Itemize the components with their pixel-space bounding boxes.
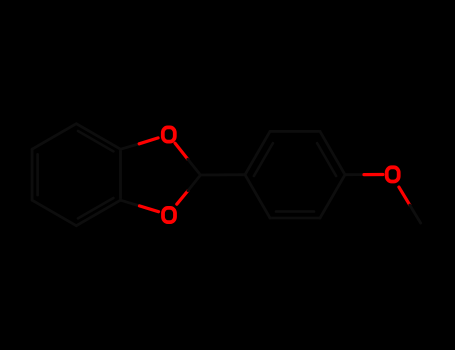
bond C2-ipso xyxy=(201,173,246,176)
phenyl ring edge ipso-A xyxy=(245,131,270,174)
phenyl ring edge C-D xyxy=(270,217,320,220)
benzo ring edge Vlb-Vlt xyxy=(31,149,34,200)
phenyl double bond inner line C-D xyxy=(276,210,314,213)
benzo double bond inner line left xyxy=(36,154,39,195)
benzo ring edge Cb-Vb xyxy=(76,200,120,226)
bond O2-C2 dark half xyxy=(188,175,201,191)
bond O2-C2 red half xyxy=(177,191,188,205)
atom O2 xyxy=(163,208,175,222)
bond Ct-O1 dark half xyxy=(121,144,140,149)
bond para-O3 red half xyxy=(364,173,383,176)
benzo ring edge Vb-Vlb xyxy=(32,200,76,226)
bond Cb-O2 red half xyxy=(140,206,159,212)
benzo ring edge Vt-Ct xyxy=(76,124,120,150)
benzo double bond inner line top-right xyxy=(78,131,113,151)
benzo ring fusion bond Ct-Cb xyxy=(119,149,122,200)
bond O3-CH3 dark half xyxy=(410,205,421,223)
benzo double bond inner line bottom-right xyxy=(78,198,113,218)
phenyl double bond inner line B-para xyxy=(317,143,336,176)
atom O3 xyxy=(387,167,399,181)
bond Cb-O2 dark half xyxy=(121,200,140,206)
phenyl ring edge B-para xyxy=(320,131,345,174)
phenyl ring edge para-C xyxy=(320,175,345,218)
phenyl ring edge D-ipso xyxy=(245,175,270,218)
bond O1-C2 red half xyxy=(175,143,188,159)
bond O1-C2 dark half xyxy=(188,159,201,175)
bond Ct-O1 red half xyxy=(139,138,158,144)
bond para-O3 dark half xyxy=(345,173,364,176)
phenyl ring edge A-B xyxy=(270,130,320,133)
atom O1 xyxy=(163,127,175,141)
bond O3-CH3 red half xyxy=(399,187,410,205)
benzo ring edge Vlt-Vt xyxy=(32,124,76,150)
phenyl double bond inner line ipso-A xyxy=(254,143,273,176)
